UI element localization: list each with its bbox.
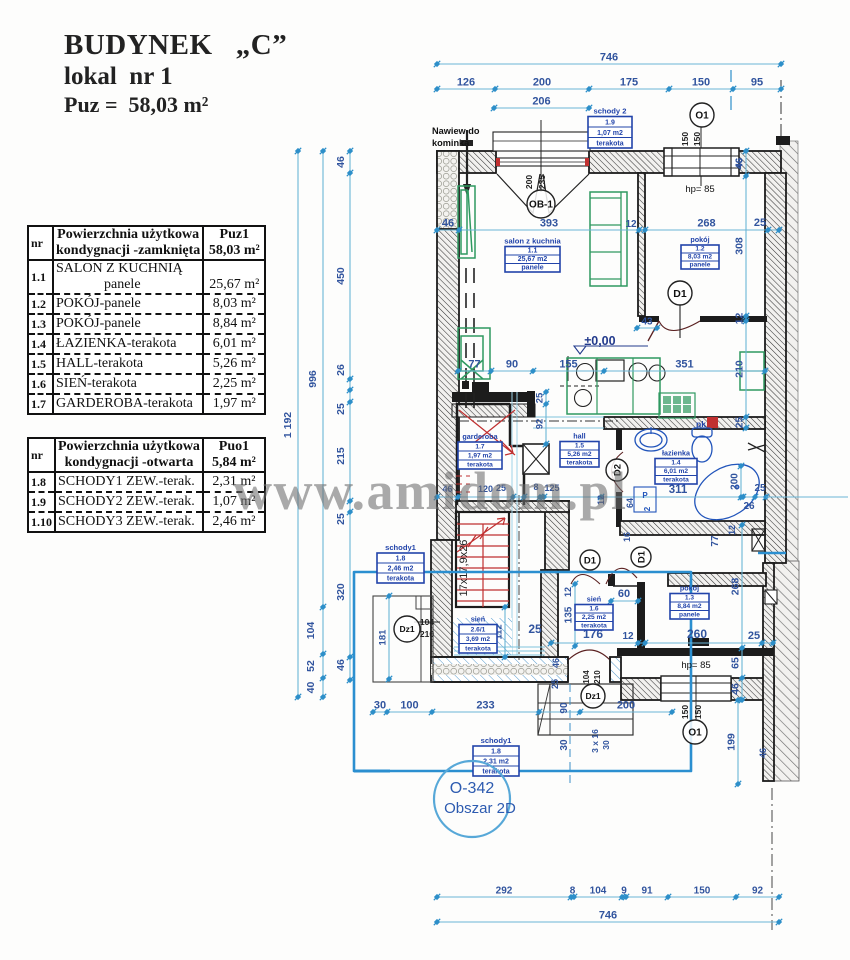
svg-text:46: 46 [730, 683, 742, 695]
svg-text:8: 8 [570, 886, 576, 897]
svg-text:D1: D1 [636, 550, 647, 563]
svg-text:Nawiew do: Nawiew do [432, 126, 480, 136]
svg-text:90: 90 [506, 359, 518, 371]
svg-text:łazienka: łazienka [662, 449, 691, 458]
svg-text:schody1: schody1 [385, 543, 417, 552]
svg-text:91: 91 [641, 886, 653, 897]
svg-text:12: 12 [622, 631, 634, 642]
svg-text:30: 30 [374, 700, 386, 712]
svg-text:43: 43 [641, 317, 653, 328]
svg-text:26: 26 [335, 364, 347, 376]
svg-text:9: 9 [621, 886, 627, 897]
svg-text:hp= 85: hp= 85 [685, 184, 714, 195]
svg-text:terakota: terakota [581, 623, 607, 630]
svg-text:52: 52 [305, 660, 317, 672]
svg-text:25: 25 [528, 622, 542, 636]
svg-text:D1: D1 [673, 288, 687, 300]
svg-text:65: 65 [730, 657, 742, 669]
svg-text:30: 30 [559, 739, 570, 751]
svg-text:308: 308 [734, 237, 746, 255]
svg-text:996: 996 [307, 370, 319, 388]
svg-text:77: 77 [468, 359, 480, 371]
svg-text:40: 40 [305, 682, 317, 694]
svg-text:3,69 m2: 3,69 m2 [466, 636, 491, 643]
svg-text:135: 135 [564, 606, 575, 623]
svg-text:100: 100 [400, 700, 418, 712]
svg-text:hall: hall [573, 432, 585, 441]
svg-text:8,03 m2: 8,03 m2 [688, 254, 713, 261]
svg-text:46: 46 [758, 748, 768, 758]
svg-text:garderoba: garderoba [462, 432, 498, 441]
svg-text:O-342: O-342 [450, 780, 495, 797]
svg-text:1.2: 1.2 [695, 246, 704, 253]
svg-text:1,07 m2: 1,07 m2 [597, 130, 623, 137]
svg-text:46: 46 [734, 158, 744, 168]
svg-text:O1: O1 [688, 728, 702, 739]
svg-text:1.6: 1.6 [589, 606, 598, 613]
svg-text:1.5: 1.5 [575, 443, 584, 450]
svg-text:210: 210 [734, 360, 746, 378]
svg-text:199: 199 [726, 733, 738, 751]
svg-text:terakota: terakota [663, 477, 689, 484]
svg-text:30: 30 [601, 740, 611, 750]
svg-text:salon z kuchnia: salon z kuchnia [504, 237, 561, 246]
svg-text:90: 90 [559, 702, 570, 714]
svg-text:77: 77 [710, 535, 721, 547]
svg-text:6,01 m2: 6,01 m2 [664, 468, 689, 475]
svg-text:450: 450 [335, 267, 347, 285]
svg-text:268: 268 [697, 218, 715, 230]
svg-text:1,97 m2: 1,97 m2 [468, 453, 493, 460]
svg-text:200: 200 [617, 700, 635, 712]
svg-text:25: 25 [754, 483, 766, 494]
svg-text:155: 155 [559, 359, 577, 371]
svg-text:OB-1: OB-1 [529, 200, 553, 211]
svg-text:46: 46 [335, 659, 347, 671]
svg-text:320: 320 [335, 583, 347, 601]
svg-text:schody1: schody1 [481, 736, 513, 745]
svg-text:2.6/1: 2.6/1 [471, 627, 486, 634]
svg-text:12: 12 [734, 313, 746, 325]
svg-text:1.8: 1.8 [491, 749, 501, 756]
svg-text:panele: panele [521, 265, 543, 272]
svg-text:panele: panele [690, 262, 711, 269]
svg-text:200: 200 [730, 473, 741, 490]
svg-text:1.1: 1.1 [528, 248, 538, 255]
svg-text:1.8: 1.8 [396, 556, 406, 563]
svg-text:150: 150 [694, 886, 711, 897]
svg-text:126: 126 [457, 77, 475, 89]
svg-text:P: P [642, 491, 648, 500]
svg-text:351: 351 [675, 359, 693, 371]
svg-text:25,67 m2: 25,67 m2 [518, 256, 548, 263]
svg-text:1.9: 1.9 [605, 120, 615, 127]
svg-text:92: 92 [752, 886, 764, 897]
svg-text:46: 46 [442, 218, 454, 230]
svg-text:1.4: 1.4 [671, 460, 680, 467]
svg-text:210: 210 [593, 670, 602, 684]
svg-text:210: 210 [420, 629, 434, 639]
svg-text:1.3: 1.3 [685, 595, 694, 602]
svg-text:Dz1: Dz1 [399, 624, 414, 634]
svg-text:25: 25 [550, 679, 560, 689]
svg-text:104: 104 [582, 670, 591, 684]
svg-text:311: 311 [669, 484, 688, 496]
svg-text:1 192: 1 192 [282, 412, 294, 438]
svg-text:pokój: pokój [680, 584, 699, 593]
svg-text:schody 2: schody 2 [594, 107, 627, 116]
svg-text:sień: sień [587, 595, 601, 604]
svg-text:181: 181 [378, 629, 389, 646]
svg-text:pokój: pokój [690, 235, 709, 244]
svg-text:104: 104 [590, 886, 607, 897]
svg-text:hp= 85: hp= 85 [681, 660, 710, 671]
svg-text:12: 12 [625, 219, 637, 230]
svg-text:25: 25 [734, 417, 746, 429]
svg-text:8,84 m2: 8,84 m2 [677, 603, 702, 610]
svg-text:16: 16 [622, 532, 632, 542]
svg-text:200: 200 [533, 77, 551, 89]
svg-text:92: 92 [535, 419, 546, 430]
svg-text:150: 150 [680, 705, 690, 719]
svg-text:233: 233 [476, 700, 494, 712]
svg-text:150: 150 [693, 705, 703, 719]
svg-text:2: 2 [643, 506, 652, 511]
svg-text:175: 175 [620, 77, 638, 89]
svg-text:25: 25 [748, 630, 760, 642]
svg-text:5,26 m2: 5,26 m2 [567, 451, 592, 458]
svg-text:206: 206 [532, 96, 550, 108]
svg-text:150: 150 [680, 132, 690, 146]
svg-text:Obszar 2D: Obszar 2D [444, 800, 516, 817]
svg-text:235: 235 [537, 175, 547, 189]
svg-text:kominka: kominka [432, 138, 470, 148]
svg-text:2,46 m2: 2,46 m2 [388, 566, 414, 573]
svg-text:17x17,9x26: 17x17,9x26 [458, 540, 470, 597]
svg-text:200: 200 [524, 175, 534, 189]
svg-text:746: 746 [600, 52, 618, 64]
svg-text:95: 95 [751, 77, 763, 89]
svg-text:46: 46 [551, 658, 561, 668]
svg-text:268: 268 [730, 578, 742, 596]
svg-text:sień: sień [471, 615, 485, 624]
svg-text:25: 25 [535, 392, 546, 403]
svg-text:12: 12 [563, 587, 573, 597]
svg-text:746: 746 [599, 910, 617, 922]
svg-text:150: 150 [692, 132, 702, 146]
svg-text:1.7: 1.7 [475, 444, 484, 451]
svg-text:260: 260 [687, 627, 707, 641]
svg-text:292: 292 [496, 886, 513, 897]
svg-text:terakota: terakota [596, 141, 623, 148]
svg-text:Dz1: Dz1 [585, 691, 600, 701]
svg-text:terakota: terakota [465, 646, 491, 653]
svg-text:panele: panele [679, 612, 700, 619]
svg-text:terakota: terakota [387, 576, 414, 583]
svg-text:60: 60 [618, 588, 630, 600]
svg-text:25: 25 [335, 403, 347, 415]
svg-text:25: 25 [754, 217, 766, 229]
svg-text:46: 46 [335, 156, 347, 168]
svg-text:393: 393 [540, 218, 558, 230]
svg-text:3 x 16: 3 x 16 [590, 729, 600, 753]
svg-text:2,25 m2: 2,25 m2 [582, 614, 607, 621]
svg-text:12: 12 [727, 525, 737, 535]
svg-text:D1: D1 [584, 555, 597, 566]
svg-text:104: 104 [305, 622, 317, 640]
svg-text:26: 26 [743, 501, 755, 512]
svg-text:O1: O1 [695, 111, 709, 122]
svg-text:150: 150 [692, 77, 710, 89]
